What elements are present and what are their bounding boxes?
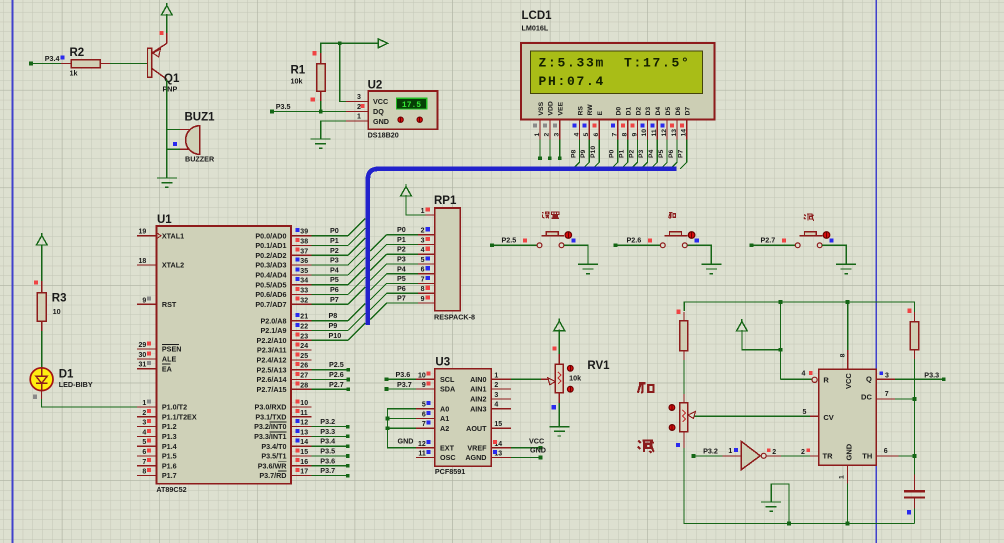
junction node above U2 <box>338 41 342 45</box>
wire U1 P0.6 net P6 to bus <box>311 277 365 294</box>
U1 pin 13 P3.3/INT1 <box>254 429 311 441</box>
U1 pin 27 P2.6/A14 <box>257 372 312 384</box>
LCD pin 4 RS <box>573 106 585 140</box>
U3 pin 14 VREF <box>467 440 511 452</box>
svg-text:DQ: DQ <box>373 107 384 116</box>
svg-text:P1: P1 <box>330 236 339 245</box>
svg-text:P10: P10 <box>329 331 342 340</box>
U1 pin 37 P0.2/AD2 <box>255 248 311 260</box>
wire U1 P2.2 net P10 to bus <box>311 323 365 340</box>
wire U1 P2.0 net P8 to bus <box>311 303 365 320</box>
svg-text:P0.7/AD7: P0.7/AD7 <box>255 300 286 309</box>
wire R4 to RV2 <box>683 360 685 394</box>
svg-text:2: 2 <box>772 449 776 456</box>
resistor pack RP1 <box>418 195 475 322</box>
marker at Q1 emitter <box>159 31 163 35</box>
U1 pin 5 P1.4 <box>137 439 177 451</box>
svg-text:3: 3 <box>357 94 361 101</box>
svg-text:5: 5 <box>142 439 146 446</box>
svg-text:D1: D1 <box>59 369 74 381</box>
svg-text:GND: GND <box>530 446 546 455</box>
wire U2 GND pin to ground <box>321 121 346 139</box>
svg-text:31: 31 <box>139 362 147 369</box>
svg-text:2: 2 <box>544 133 551 137</box>
svg-text:12: 12 <box>300 420 308 427</box>
junction node ground jog <box>787 522 791 526</box>
U1 pin 17 P3.7/RD <box>259 468 311 480</box>
svg-text:P1.1/T2EX: P1.1/T2EX <box>162 412 197 421</box>
svg-text:P3.4: P3.4 <box>45 54 60 63</box>
svg-text:17: 17 <box>300 469 308 476</box>
junction node reset/power <box>779 348 783 352</box>
svg-text:P1.3: P1.3 <box>162 432 177 441</box>
svg-text:EXT: EXT <box>440 443 455 452</box>
svg-text:P2: P2 <box>397 245 406 254</box>
wire button SET to ground <box>564 245 588 264</box>
power symbol arrow right of R1 <box>378 39 388 48</box>
svg-text:P2.0/A8: P2.0/A8 <box>261 316 287 325</box>
wire top rail 555 <box>684 302 914 312</box>
wire U1 P3.2 stub <box>311 417 349 428</box>
svg-text:P3.2/INT0: P3.2/INT0 <box>254 422 286 431</box>
svg-text:XTAL2: XTAL2 <box>162 261 184 270</box>
svg-text:P8: P8 <box>570 149 577 158</box>
svg-text:P1.7: P1.7 <box>162 471 177 480</box>
svg-text:16: 16 <box>300 459 308 466</box>
wire LCD pin 3 down <box>558 140 562 161</box>
wire RP1 pin 7 net P5 to bus <box>370 274 418 300</box>
svg-text:PCF8591: PCF8591 <box>435 467 465 476</box>
svg-text:VSS: VSS <box>538 101 545 115</box>
svg-text:P1.6: P1.6 <box>162 461 177 470</box>
svg-text:1: 1 <box>534 133 541 137</box>
svg-text:AGND: AGND <box>465 453 486 462</box>
svg-text:8: 8 <box>622 133 629 137</box>
U1 pin 15 P3.5/T1 <box>261 448 311 460</box>
ground at button SUB <box>836 264 856 273</box>
wire LCD pin 10 to bus net P3 <box>638 140 647 169</box>
svg-text:DS18B20: DS18B20 <box>368 130 399 139</box>
svg-text:P4: P4 <box>648 149 655 158</box>
wire reset branch to 555 R <box>781 302 813 379</box>
svg-text:21: 21 <box>300 314 308 321</box>
wire VCC to Q1 emitter <box>166 14 168 33</box>
LCD pin 7 D0 <box>611 107 623 140</box>
svg-text:15: 15 <box>300 449 308 456</box>
svg-text:D6: D6 <box>675 107 682 116</box>
svg-text:5: 5 <box>422 402 426 409</box>
svg-text:2: 2 <box>801 449 805 456</box>
push button SET <box>537 232 572 248</box>
IC 555 timer <box>802 369 877 465</box>
svg-text:GND: GND <box>398 437 414 446</box>
wire U1 P2.1 net P9 to bus <box>311 313 365 330</box>
wire power to RV1 <box>558 330 560 354</box>
svg-text:P3.7: P3.7 <box>320 466 335 475</box>
svg-text:3: 3 <box>554 133 561 137</box>
svg-text:3: 3 <box>142 420 146 427</box>
svg-text:12: 12 <box>418 441 426 448</box>
junction node R1 bottom <box>319 110 323 114</box>
terminal P3.3 <box>924 371 945 382</box>
LCD pin 6 E <box>592 111 604 140</box>
svg-text:34: 34 <box>300 278 308 285</box>
svg-text:1: 1 <box>728 448 732 455</box>
svg-text:2: 2 <box>142 410 146 417</box>
U1 pin 8 P1.7 <box>137 468 177 480</box>
marker below D1 <box>33 395 37 399</box>
ground below RV1 <box>549 427 569 436</box>
svg-text:10k: 10k <box>569 374 581 383</box>
svg-text:6: 6 <box>422 411 426 418</box>
U1 pin 36 P0.3/AD3 <box>255 258 311 270</box>
svg-text:11: 11 <box>651 129 658 136</box>
svg-text:E: E <box>597 111 604 116</box>
marker below RV2 <box>676 443 680 447</box>
terminal P3.5 <box>270 102 291 113</box>
wire RP1 pin 8 net P6 to bus <box>370 284 418 310</box>
svg-text:VCC: VCC <box>373 97 388 106</box>
chinese label set (shezhi) above button 1 <box>542 212 559 218</box>
U3 pin 5 A0 <box>416 401 449 413</box>
U1 pin 34 P0.5/AD5 <box>255 277 311 289</box>
wire U3 address pins to GND net <box>386 409 416 448</box>
svg-text:4: 4 <box>494 402 498 409</box>
capacitor C1 <box>904 491 925 497</box>
svg-text:CV: CV <box>823 413 833 422</box>
wire P3.7 to U3 SDA <box>386 388 416 390</box>
terminal P2.6 <box>614 236 642 248</box>
svg-text:RST: RST <box>162 300 177 309</box>
LCD pin 5 RW <box>583 104 595 140</box>
svg-text:3: 3 <box>494 392 498 399</box>
svg-text:23: 23 <box>300 333 308 340</box>
svg-text:4: 4 <box>142 429 146 436</box>
svg-text:GND: GND <box>373 117 389 126</box>
svg-text:P3.2: P3.2 <box>703 447 718 456</box>
svg-text:VEE: VEE <box>558 101 565 115</box>
terminal P3.6 <box>385 370 411 381</box>
svg-text:P2.7: P2.7 <box>329 380 344 389</box>
wire U1 P0.7 net P7 to bus <box>311 287 365 304</box>
marker at U2 DQ pin <box>360 104 364 108</box>
wire P2.7 to button <box>751 244 795 246</box>
svg-text:3: 3 <box>885 373 889 380</box>
wire inverter to 555 TR <box>766 448 818 456</box>
svg-text:P3: P3 <box>330 256 339 265</box>
svg-text:30: 30 <box>139 352 147 359</box>
svg-text:VDD: VDD <box>548 101 555 115</box>
wire LCD pin 13 to bus net P6 <box>668 140 677 169</box>
push button SUB <box>795 232 830 248</box>
wire R1 bottom to P3.5 net <box>320 101 322 111</box>
U1 pin 22 P2.1/A9 <box>261 323 312 335</box>
svg-text:32: 32 <box>300 297 308 304</box>
svg-text:P0.6/AD6: P0.6/AD6 <box>255 290 286 299</box>
wire 555 TH <box>876 448 914 456</box>
svg-text:P7: P7 <box>397 294 406 303</box>
svg-text:25: 25 <box>300 353 308 360</box>
svg-text:P3.3: P3.3 <box>320 427 335 436</box>
svg-text:D3: D3 <box>645 107 652 116</box>
junction node DC/resistor <box>913 397 917 401</box>
svg-text:8: 8 <box>142 469 146 476</box>
svg-text:RP1: RP1 <box>434 195 457 207</box>
svg-text:BUZ1: BUZ1 <box>185 112 216 124</box>
svg-text:TR: TR <box>823 452 834 461</box>
U1 pin 14 P3.4/T0 <box>261 439 311 451</box>
U1 pin 21 P2.0/A8 <box>261 313 312 325</box>
U1 pin 39 P0.0/AD0 <box>255 228 311 240</box>
svg-text:24: 24 <box>300 343 308 350</box>
wire 555 Q to P3.3 <box>876 371 942 379</box>
svg-text:OSC: OSC <box>440 453 456 462</box>
svg-text:4: 4 <box>421 247 425 254</box>
resistor R1 <box>291 53 326 101</box>
svg-text:LM016L: LM016L <box>522 24 549 33</box>
svg-text:P1.5: P1.5 <box>162 452 177 461</box>
svg-text:39: 39 <box>300 229 308 236</box>
wire LCD pin 9 to bus net P2 <box>628 140 637 169</box>
svg-text:6: 6 <box>593 133 600 137</box>
wire RP1 pin 3 net P1 to bus <box>370 235 418 261</box>
svg-text:P6: P6 <box>397 284 406 293</box>
push button ADD <box>660 232 695 248</box>
svg-text:P8: P8 <box>329 311 338 320</box>
svg-text:37: 37 <box>300 248 308 255</box>
svg-text:14: 14 <box>300 439 308 446</box>
svg-text:6: 6 <box>421 267 425 274</box>
U1 pin 26 P2.5/A13 <box>257 362 312 374</box>
svg-text:8: 8 <box>840 353 847 357</box>
svg-text:P2.3/A11: P2.3/A11 <box>257 346 287 355</box>
svg-text:2: 2 <box>494 382 498 389</box>
svg-text:D5: D5 <box>665 107 672 116</box>
U1 pin 18 XTAL2 <box>137 258 184 270</box>
wire button ADD to ground <box>687 245 711 264</box>
svg-text:P2.4/A12: P2.4/A12 <box>257 356 287 365</box>
wire U3 AGND to GND <box>511 446 546 460</box>
wire ground symbol jog <box>771 484 789 523</box>
svg-text:P4: P4 <box>330 265 339 274</box>
wire power to RP1 pin 1 <box>406 195 426 215</box>
svg-text:14: 14 <box>681 129 688 137</box>
svg-text:P7: P7 <box>678 149 685 158</box>
U3 pin 7 A2 <box>416 421 449 433</box>
svg-text:7: 7 <box>142 459 146 466</box>
U3 pin 4 AIN3 <box>470 402 511 414</box>
U3 pin 6 A1 <box>416 411 449 423</box>
power symbol above R3 <box>36 233 47 245</box>
svg-text:P2: P2 <box>628 149 635 158</box>
svg-text:P5: P5 <box>397 274 406 283</box>
svg-text:9: 9 <box>631 133 638 137</box>
svg-text:P2: P2 <box>330 246 339 255</box>
svg-text:P0.2/AD2: P0.2/AD2 <box>255 251 286 260</box>
svg-text:P0.0/AD0: P0.0/AD0 <box>255 231 286 240</box>
svg-text:10: 10 <box>418 372 426 379</box>
svg-text:P2.6: P2.6 <box>627 236 642 245</box>
wire U1 P0.3 net P3 to bus <box>311 248 365 265</box>
U3 pin 2 AIN1 <box>470 382 511 394</box>
svg-text:P2.6/A14: P2.6/A14 <box>257 375 287 384</box>
svg-text:10: 10 <box>300 400 308 407</box>
marker above left resistor <box>676 310 680 314</box>
svg-text:SDA: SDA <box>440 385 455 394</box>
svg-text:U2: U2 <box>368 80 383 92</box>
LCD pin 10 D3 <box>641 107 653 140</box>
svg-text:8: 8 <box>421 286 425 293</box>
marker right of button SUB <box>830 239 834 243</box>
U1 pin 6 P1.5 <box>137 448 177 460</box>
power symbol above RV1 <box>554 319 565 331</box>
svg-text:1: 1 <box>494 372 498 379</box>
svg-text:R: R <box>823 376 829 385</box>
inverter NOT gate <box>741 441 766 469</box>
U3 pin 1 AIN0 <box>470 372 511 384</box>
wire U3 VREF to VCC <box>511 437 544 450</box>
svg-text:P3.7: P3.7 <box>397 380 412 389</box>
U1 pin 16 P3.6/WR <box>258 458 312 470</box>
svg-text:PNP: PNP <box>163 85 178 94</box>
wire P2.5 to button <box>492 244 537 246</box>
wire button SUB to ground <box>822 245 846 264</box>
resistor R3 <box>37 281 66 331</box>
U1 pin 28 P2.7/A15 <box>257 382 312 394</box>
svg-text:BUZZER: BUZZER <box>185 155 215 164</box>
svg-text:D2: D2 <box>635 107 642 116</box>
svg-text:4: 4 <box>573 133 580 137</box>
svg-text:P5: P5 <box>658 149 665 158</box>
marker below RV1 <box>552 405 556 409</box>
U1 pin 30 ALE <box>137 351 177 363</box>
bus from LCD to RP1/U1 <box>368 169 677 325</box>
LCD pin 8 D1 <box>621 107 633 140</box>
svg-text:P0.4/AD4: P0.4/AD4 <box>255 271 286 280</box>
svg-text:P3.5: P3.5 <box>320 447 335 456</box>
LCD1 label <box>522 10 553 33</box>
svg-text:P3: P3 <box>397 255 406 264</box>
wire LCD pin 4 to bus net P8 <box>570 140 579 169</box>
svg-text:A1: A1 <box>440 414 449 423</box>
svg-text:RV1: RV1 <box>587 360 610 372</box>
marker below capacitor <box>907 510 911 514</box>
svg-text:13: 13 <box>300 429 308 436</box>
junction node rail at VCC pin <box>846 300 850 304</box>
IC U1 AT89C52 <box>156 214 291 494</box>
wire RV1 to ground <box>558 403 560 427</box>
svg-text:AIN3: AIN3 <box>470 404 486 413</box>
wire LCD pin 7 to bus net P0 <box>609 140 618 169</box>
svg-text:RW: RW <box>587 104 594 116</box>
wire capacitor to ground rail <box>914 498 916 524</box>
svg-text:10: 10 <box>641 129 648 137</box>
svg-text:SCL: SCL <box>440 375 455 384</box>
resistor R5 (555 discharge) <box>910 312 918 359</box>
svg-text:P3.2: P3.2 <box>320 417 335 426</box>
LCD pin 3 VEE <box>553 101 565 139</box>
wire U1 P0.0 net P0 to bus <box>311 218 365 235</box>
chinese label add (jia) above button 2 <box>669 213 676 219</box>
U1 pin 12 P3.2/INT0 <box>254 419 311 431</box>
svg-text:LCD1: LCD1 <box>522 10 553 22</box>
svg-text:1: 1 <box>357 114 361 121</box>
svg-text:11: 11 <box>300 410 308 417</box>
svg-text:P3.7/RD: P3.7/RD <box>259 471 286 480</box>
wire LCD pin 8 to bus net P1 <box>619 140 628 169</box>
wire power to R3 <box>41 246 43 282</box>
marker left of button SUB <box>782 239 786 243</box>
wire RP1 pin 9 net P7 to bus <box>370 294 418 320</box>
sheet border right <box>875 0 877 543</box>
wire U1 P2.7 stub <box>311 380 350 391</box>
svg-text:10: 10 <box>53 307 61 316</box>
svg-text:7: 7 <box>885 391 889 398</box>
svg-text:5: 5 <box>421 257 425 264</box>
svg-text:ALE: ALE <box>162 355 177 364</box>
wire RP1 pin 6 net P4 to bus <box>370 264 418 290</box>
LED D1 <box>30 368 93 391</box>
marker right of button SET <box>571 239 575 243</box>
marker above R3 <box>34 281 38 285</box>
wire P3.6 to U3 SCL <box>386 378 416 380</box>
svg-text:7: 7 <box>422 421 426 428</box>
U3 pin 11 OSC <box>416 450 456 462</box>
svg-text:3: 3 <box>421 237 425 244</box>
U1 pin 11 P3.1/TXD <box>255 409 311 421</box>
marker at buzzer <box>173 142 177 146</box>
svg-text:P3.4/T0: P3.4/T0 <box>261 442 286 451</box>
svg-text:P7: P7 <box>330 295 339 304</box>
IC U2 DS18B20 <box>346 80 438 140</box>
chinese label sub (jian) large <box>638 440 654 453</box>
ground below buzzer <box>157 178 177 187</box>
svg-text:XTAL1: XTAL1 <box>162 231 184 240</box>
svg-text:22: 22 <box>300 324 308 331</box>
svg-text:VREF: VREF <box>467 443 487 452</box>
LCD screen <box>530 51 702 93</box>
ground at button SET <box>578 264 598 273</box>
svg-text:AIN0: AIN0 <box>470 375 486 384</box>
svg-text:27: 27 <box>300 373 308 380</box>
U1 pin 35 P0.4/AD4 <box>255 267 311 279</box>
svg-text:2: 2 <box>421 228 425 235</box>
wire U1 P3.4 stub <box>311 437 349 448</box>
svg-text:6: 6 <box>142 449 146 456</box>
svg-text:5: 5 <box>803 409 807 416</box>
svg-text:VCC: VCC <box>844 373 853 389</box>
terminal P3.7 <box>385 380 412 391</box>
wire TH node to capacitor <box>914 456 916 490</box>
svg-text:26: 26 <box>300 363 308 370</box>
wire power to reset branch <box>742 330 781 350</box>
svg-text:R3: R3 <box>52 293 67 305</box>
555 pin 8 VCC <box>840 302 848 369</box>
U3 pin 12 EXT <box>416 440 455 452</box>
svg-text:4: 4 <box>802 371 806 378</box>
svg-text:P3.4: P3.4 <box>320 437 335 446</box>
wire U1 P0.4 net P4 to bus <box>311 258 365 275</box>
svg-text:P2.5/A13: P2.5/A13 <box>257 365 287 374</box>
wire R5 to DC and TH nodes <box>914 359 916 456</box>
svg-text:P3.5: P3.5 <box>276 102 291 111</box>
wire U1 P3.6 stub <box>311 456 349 467</box>
svg-text:R1: R1 <box>291 65 306 77</box>
svg-text:P3.6: P3.6 <box>396 370 411 379</box>
marker left of button SET <box>523 239 527 243</box>
ground at button ADD <box>701 264 721 273</box>
LCD pin 11 D4 <box>650 107 662 140</box>
